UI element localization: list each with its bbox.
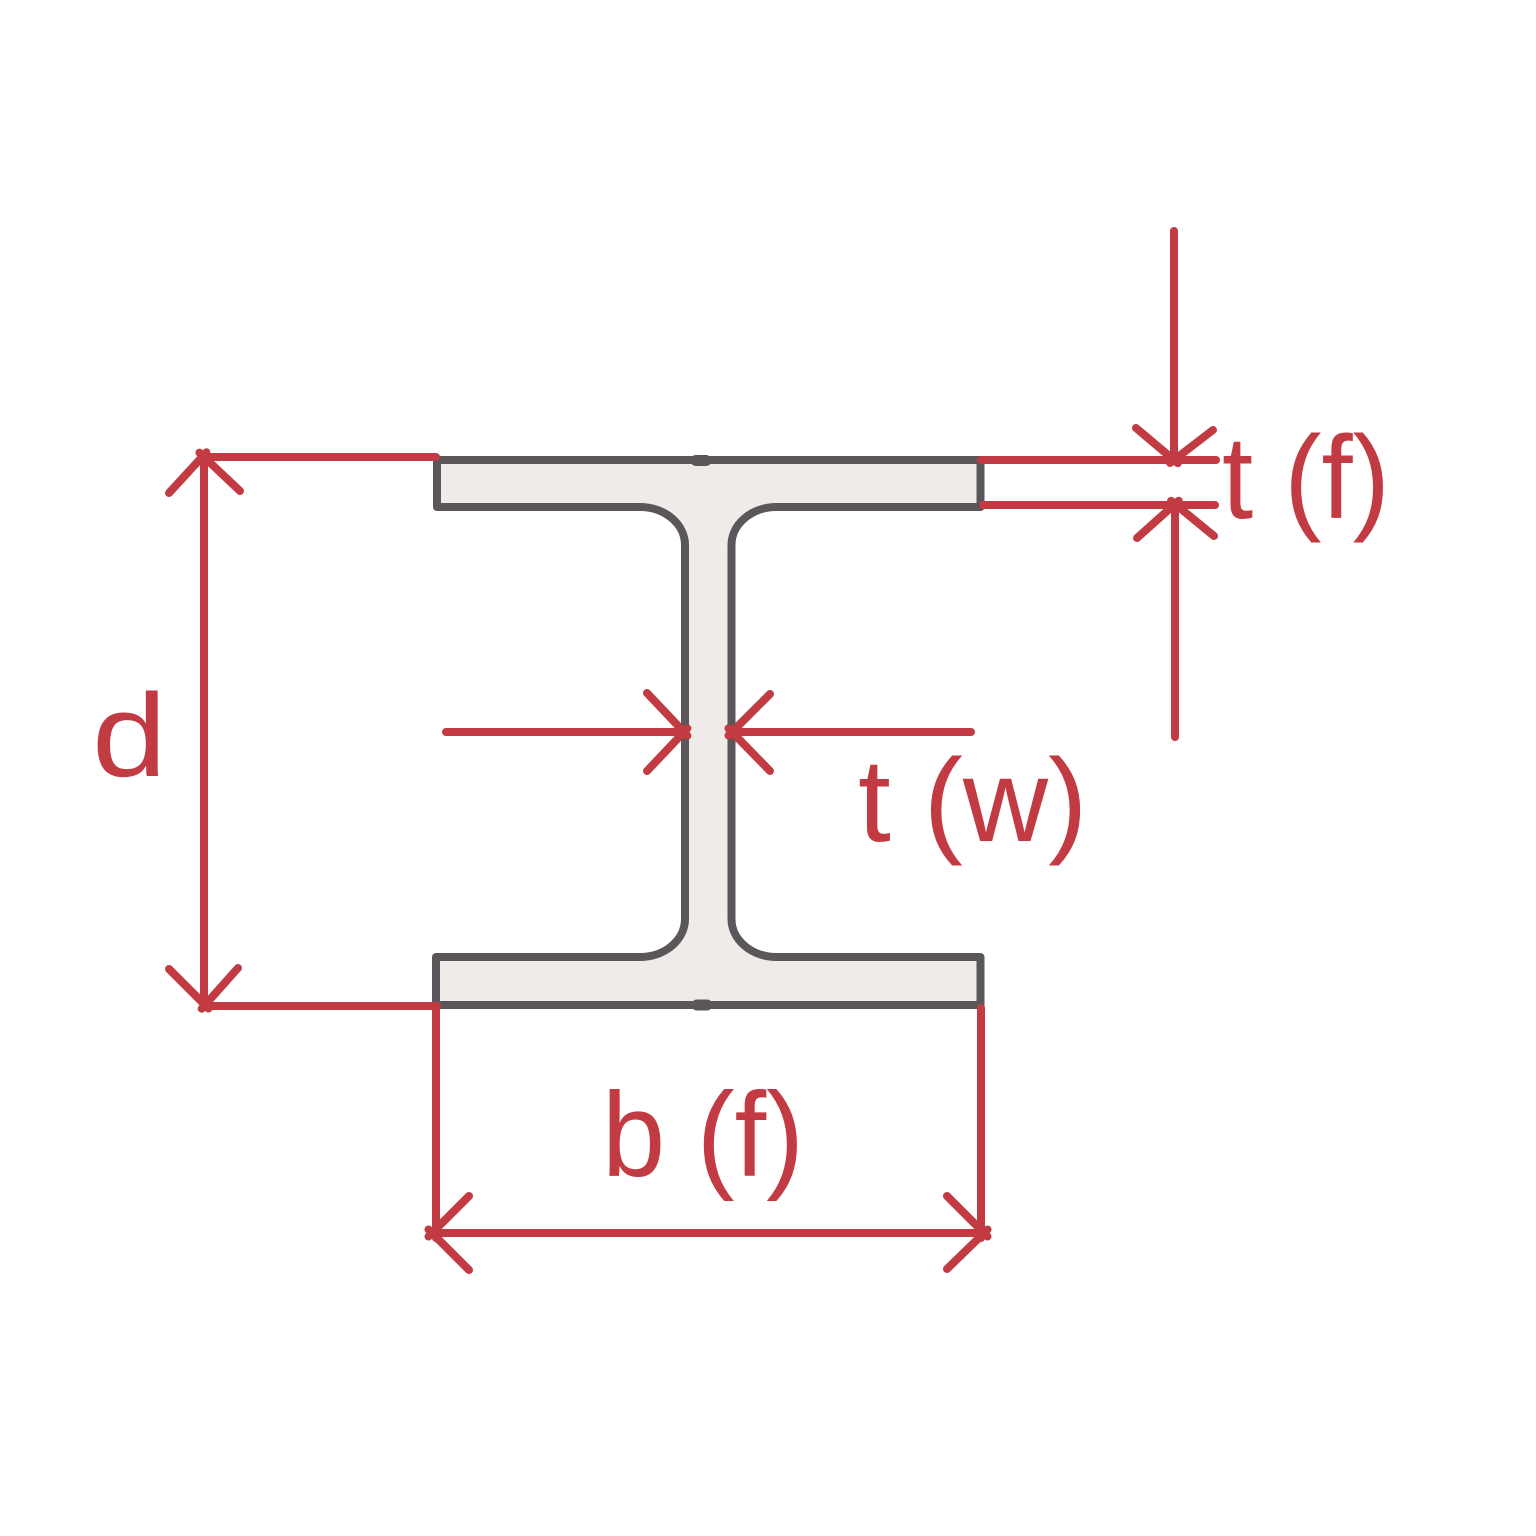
svg-text:t (w): t (w)	[858, 735, 1087, 867]
svg-text:t (f): t (f)	[1222, 412, 1390, 544]
svg-text:b (f): b (f)	[602, 1068, 804, 1202]
svg-text:d: d	[92, 670, 167, 802]
